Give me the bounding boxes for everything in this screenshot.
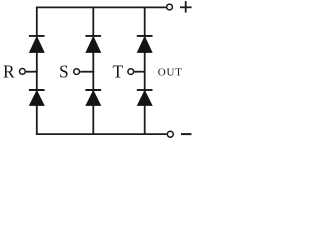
terminal S (input circle): [74, 69, 80, 75]
wire T input stub: [134, 71, 145, 73]
svg-text:R: R: [3, 61, 15, 81]
diode D4 lower (R leg): [29, 90, 45, 105]
diode D1 upper (R leg): [29, 36, 45, 52]
label - (minus sign): [181, 133, 192, 135]
label + (plus sign): [180, 1, 192, 13]
svg-text:OUT: OUT: [158, 66, 183, 78]
wire S input stub: [80, 71, 94, 73]
svg-text:S: S: [59, 61, 69, 81]
svg-text:T: T: [113, 61, 124, 81]
diode D6 lower (T leg): [137, 90, 153, 105]
diode D3 upper (T leg): [137, 36, 153, 52]
terminal R (input circle): [20, 69, 26, 75]
wire leg 1 (R phase branch): [36, 7, 38, 134]
wire leg 3 (T phase branch): [144, 7, 146, 134]
wire leg 2 (S phase branch): [92, 7, 94, 134]
diode D2 upper (S leg): [85, 36, 101, 52]
wire bottom rail (- bus): [36, 133, 167, 135]
diode D5 lower (S leg): [85, 90, 101, 105]
terminal T (input circle): [128, 69, 134, 75]
wire R input stub: [26, 71, 38, 73]
terminal - (output circle): [167, 131, 173, 137]
wire top rail (+ bus): [36, 6, 166, 8]
terminal + (output circle): [167, 4, 173, 10]
